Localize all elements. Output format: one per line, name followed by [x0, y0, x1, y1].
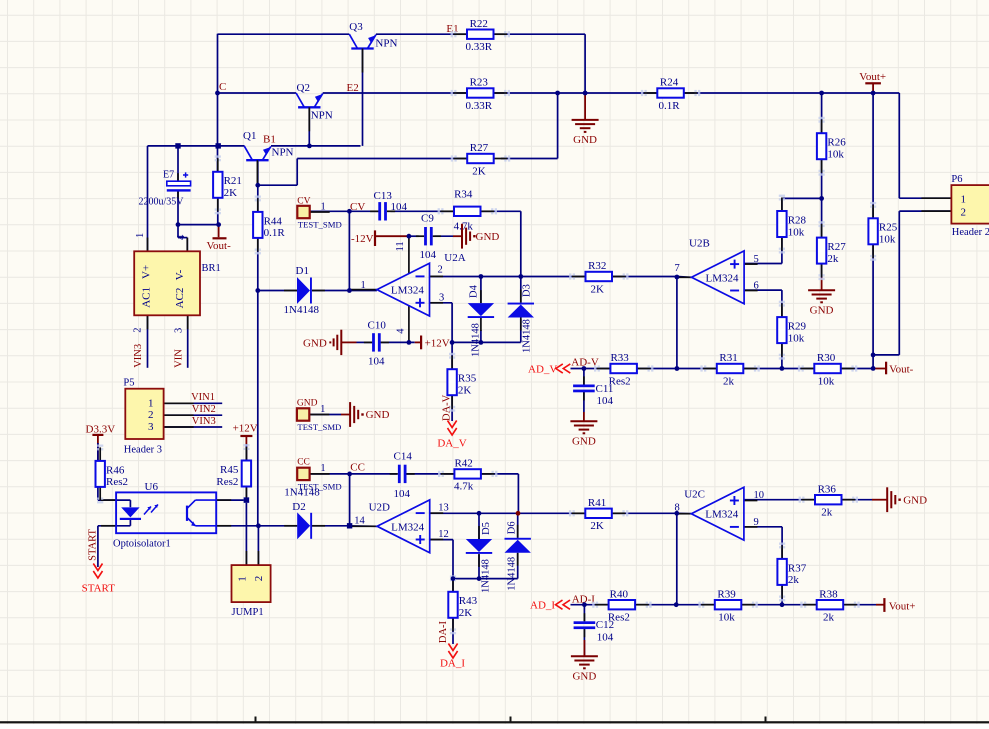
svg-text:10k: 10k — [827, 149, 844, 161]
svg-text:1N4148: 1N4148 — [521, 319, 532, 353]
svg-text:2K: 2K — [459, 607, 473, 619]
svg-text:4.7k: 4.7k — [454, 481, 474, 493]
svg-text:14: 14 — [354, 516, 365, 527]
svg-text:R27: R27 — [827, 241, 846, 253]
svg-text:VIN2: VIN2 — [192, 404, 216, 415]
svg-text:Vout-: Vout- — [889, 364, 914, 376]
svg-text:P6: P6 — [951, 174, 962, 185]
svg-text:9: 9 — [754, 517, 759, 528]
svg-text:R34: R34 — [454, 189, 473, 201]
svg-text:4.7k: 4.7k — [454, 221, 474, 233]
svg-text:Q1: Q1 — [243, 130, 256, 142]
svg-text:10k: 10k — [879, 234, 896, 246]
svg-text:3: 3 — [148, 421, 154, 433]
svg-text:U2C: U2C — [684, 489, 705, 501]
svg-text:1N4148: 1N4148 — [507, 557, 518, 591]
svg-text:P5: P5 — [123, 377, 134, 388]
svg-text:D4: D4 — [469, 284, 480, 298]
svg-text:10k: 10k — [818, 375, 835, 387]
svg-text:2K: 2K — [590, 520, 604, 532]
svg-text:0.33R: 0.33R — [465, 41, 492, 53]
svg-text:CV: CV — [297, 197, 310, 207]
svg-text:AD_V: AD_V — [528, 363, 557, 375]
svg-text:R41: R41 — [588, 497, 606, 509]
svg-text:1: 1 — [321, 201, 326, 212]
svg-text:2200u/35V: 2200u/35V — [139, 196, 185, 207]
svg-text:GND: GND — [810, 304, 834, 316]
svg-text:R46: R46 — [106, 464, 125, 476]
svg-text:U2A: U2A — [444, 252, 465, 264]
svg-text:6: 6 — [754, 280, 759, 291]
svg-text:C11: C11 — [596, 383, 614, 395]
svg-text:104: 104 — [597, 395, 614, 407]
svg-text:GND: GND — [903, 494, 927, 506]
svg-text:2: 2 — [148, 409, 154, 421]
svg-text:10: 10 — [754, 490, 765, 501]
svg-text:1: 1 — [237, 576, 249, 582]
svg-text:D2: D2 — [292, 501, 305, 513]
svg-text:BR1: BR1 — [202, 263, 221, 274]
svg-text:JUMP1: JUMP1 — [232, 607, 264, 618]
svg-text:2k: 2k — [827, 253, 839, 265]
svg-text:R42: R42 — [454, 458, 472, 470]
svg-text:R37: R37 — [788, 562, 807, 574]
svg-text:CC: CC — [297, 458, 310, 468]
svg-text:C13: C13 — [374, 190, 393, 202]
svg-text:U2D: U2D — [369, 501, 390, 513]
svg-text:-12V: -12V — [351, 233, 374, 245]
svg-text:1N4148: 1N4148 — [481, 559, 492, 593]
svg-text:2K: 2K — [224, 187, 238, 199]
svg-text:1: 1 — [148, 397, 154, 409]
svg-text:1N4148: 1N4148 — [284, 304, 320, 316]
svg-text:C: C — [219, 81, 226, 93]
svg-text:D5: D5 — [481, 522, 492, 535]
svg-text:R43: R43 — [459, 595, 478, 607]
svg-text:R32: R32 — [588, 260, 606, 272]
svg-text:NPN: NPN — [375, 37, 397, 49]
svg-text:R44: R44 — [264, 215, 283, 227]
svg-text:CV: CV — [350, 201, 365, 213]
svg-text:104: 104 — [394, 488, 411, 500]
svg-text:LM324: LM324 — [706, 272, 740, 284]
svg-text:R30: R30 — [817, 352, 836, 364]
svg-text:DA-I: DA-I — [438, 620, 449, 643]
svg-text:10k: 10k — [788, 332, 805, 344]
svg-text:DA-V: DA-V — [442, 394, 453, 421]
svg-text:1: 1 — [320, 463, 325, 474]
svg-text:DA_I: DA_I — [440, 658, 465, 670]
svg-text:Vout-: Vout- — [207, 240, 232, 252]
svg-text:R22: R22 — [470, 18, 488, 30]
svg-text:B1: B1 — [263, 133, 276, 145]
svg-text:AC2: AC2 — [174, 288, 186, 309]
svg-text:+12V: +12V — [425, 338, 450, 350]
svg-text:11: 11 — [395, 241, 406, 251]
svg-text:0.1R: 0.1R — [264, 227, 286, 239]
svg-text:1: 1 — [135, 233, 146, 238]
svg-text:Header 3: Header 3 — [124, 445, 162, 456]
svg-text:0.33R: 0.33R — [465, 100, 492, 112]
svg-text:D6: D6 — [506, 521, 517, 534]
svg-text:CC: CC — [350, 461, 365, 473]
svg-text:LM324: LM324 — [391, 521, 425, 533]
svg-text:2K: 2K — [591, 283, 605, 295]
svg-text:D3: D3 — [521, 284, 532, 297]
svg-text:C12: C12 — [596, 619, 614, 631]
svg-text:4: 4 — [176, 234, 187, 240]
svg-text:0.1R: 0.1R — [659, 100, 681, 112]
svg-text:V-: V- — [174, 269, 186, 280]
svg-text:START: START — [88, 529, 99, 561]
svg-text:VIN3: VIN3 — [133, 344, 144, 368]
svg-text:2K: 2K — [472, 165, 486, 177]
svg-text:12: 12 — [438, 529, 449, 540]
svg-text:2K: 2K — [458, 385, 472, 397]
svg-text:R24: R24 — [660, 77, 679, 89]
svg-text:R38: R38 — [819, 588, 838, 600]
svg-text:Optoisolator1: Optoisolator1 — [113, 538, 171, 549]
svg-text:104: 104 — [368, 356, 385, 368]
svg-text:AC1: AC1 — [141, 287, 153, 308]
svg-text:2k: 2k — [821, 507, 833, 519]
svg-text:C14: C14 — [394, 451, 413, 463]
svg-text:DA_V: DA_V — [437, 438, 466, 450]
svg-text:R26: R26 — [827, 137, 846, 149]
svg-text:4: 4 — [396, 328, 407, 334]
svg-text:TEST_SMD: TEST_SMD — [297, 422, 341, 432]
svg-text:GND: GND — [572, 670, 596, 682]
svg-text:Res2: Res2 — [216, 476, 238, 488]
svg-text:Q3: Q3 — [349, 21, 363, 33]
svg-text:START: START — [82, 582, 116, 594]
svg-text:R25: R25 — [879, 222, 898, 234]
svg-text:E7: E7 — [163, 169, 174, 180]
svg-text:1N4148: 1N4148 — [471, 323, 482, 357]
svg-text:Vout+: Vout+ — [859, 71, 886, 83]
svg-text:10k: 10k — [718, 612, 735, 624]
svg-text:2: 2 — [132, 328, 143, 333]
svg-text:3: 3 — [439, 292, 444, 303]
svg-text:R36: R36 — [818, 483, 837, 495]
svg-text:10k: 10k — [788, 226, 805, 238]
svg-text:D3.3V: D3.3V — [86, 423, 116, 435]
svg-text:2k: 2k — [788, 574, 800, 586]
svg-text:13: 13 — [438, 502, 449, 513]
svg-text:D1: D1 — [296, 265, 309, 277]
svg-text:1N4148: 1N4148 — [284, 486, 320, 498]
svg-text:R21: R21 — [224, 175, 242, 187]
svg-text:2: 2 — [253, 576, 265, 582]
svg-text:R35: R35 — [458, 373, 477, 385]
svg-text:E2: E2 — [347, 82, 359, 94]
svg-text:1: 1 — [361, 280, 366, 291]
svg-text:R29: R29 — [788, 321, 807, 333]
svg-text:GND: GND — [573, 134, 597, 146]
svg-text:5: 5 — [754, 254, 759, 265]
svg-text:NPN: NPN — [272, 147, 294, 159]
svg-text:GND: GND — [366, 409, 390, 421]
svg-text:VIN: VIN — [174, 349, 185, 368]
svg-text:R27: R27 — [470, 142, 489, 154]
svg-text:R39: R39 — [717, 588, 736, 600]
svg-text:GND: GND — [303, 338, 327, 350]
svg-text:TEST_SMD: TEST_SMD — [298, 219, 342, 229]
svg-text:GND: GND — [297, 398, 318, 408]
svg-text:C10: C10 — [368, 319, 387, 331]
svg-text:104: 104 — [420, 249, 437, 261]
svg-text:2k: 2k — [823, 612, 835, 624]
svg-text:VIN1: VIN1 — [191, 392, 215, 403]
svg-text:+12V: +12V — [233, 422, 258, 434]
svg-text:3: 3 — [173, 328, 184, 333]
svg-text:Res2: Res2 — [106, 476, 128, 488]
svg-text:R28: R28 — [788, 214, 807, 226]
svg-text:U2B: U2B — [689, 238, 710, 250]
svg-text:R23: R23 — [470, 77, 489, 89]
svg-text:U6: U6 — [145, 481, 159, 493]
svg-text:V+: V+ — [141, 265, 153, 279]
svg-text:1: 1 — [320, 404, 325, 415]
svg-text:104: 104 — [597, 632, 614, 644]
svg-text:LM324: LM324 — [705, 509, 739, 521]
svg-text:7: 7 — [675, 263, 680, 274]
svg-text:AD_I: AD_I — [530, 600, 555, 612]
svg-text:104: 104 — [391, 201, 408, 213]
svg-text:1: 1 — [961, 194, 967, 206]
svg-text:LM324: LM324 — [391, 285, 425, 297]
svg-text:R40: R40 — [610, 588, 629, 600]
svg-text:Header 2: Header 2 — [952, 227, 989, 238]
svg-text:Vout+: Vout+ — [889, 600, 916, 612]
svg-text:Q2: Q2 — [297, 82, 310, 94]
svg-text:GND: GND — [476, 231, 500, 243]
svg-text:R31: R31 — [719, 352, 737, 364]
svg-text:C9: C9 — [421, 213, 434, 225]
svg-text:2k: 2k — [723, 375, 735, 387]
svg-text:R45: R45 — [220, 464, 239, 476]
svg-text:NPN: NPN — [311, 109, 333, 121]
svg-text:2: 2 — [961, 207, 967, 219]
svg-text:GND: GND — [572, 435, 596, 447]
svg-text:R33: R33 — [610, 352, 629, 364]
svg-text:2: 2 — [438, 264, 443, 275]
svg-text:VIN3: VIN3 — [192, 416, 216, 427]
